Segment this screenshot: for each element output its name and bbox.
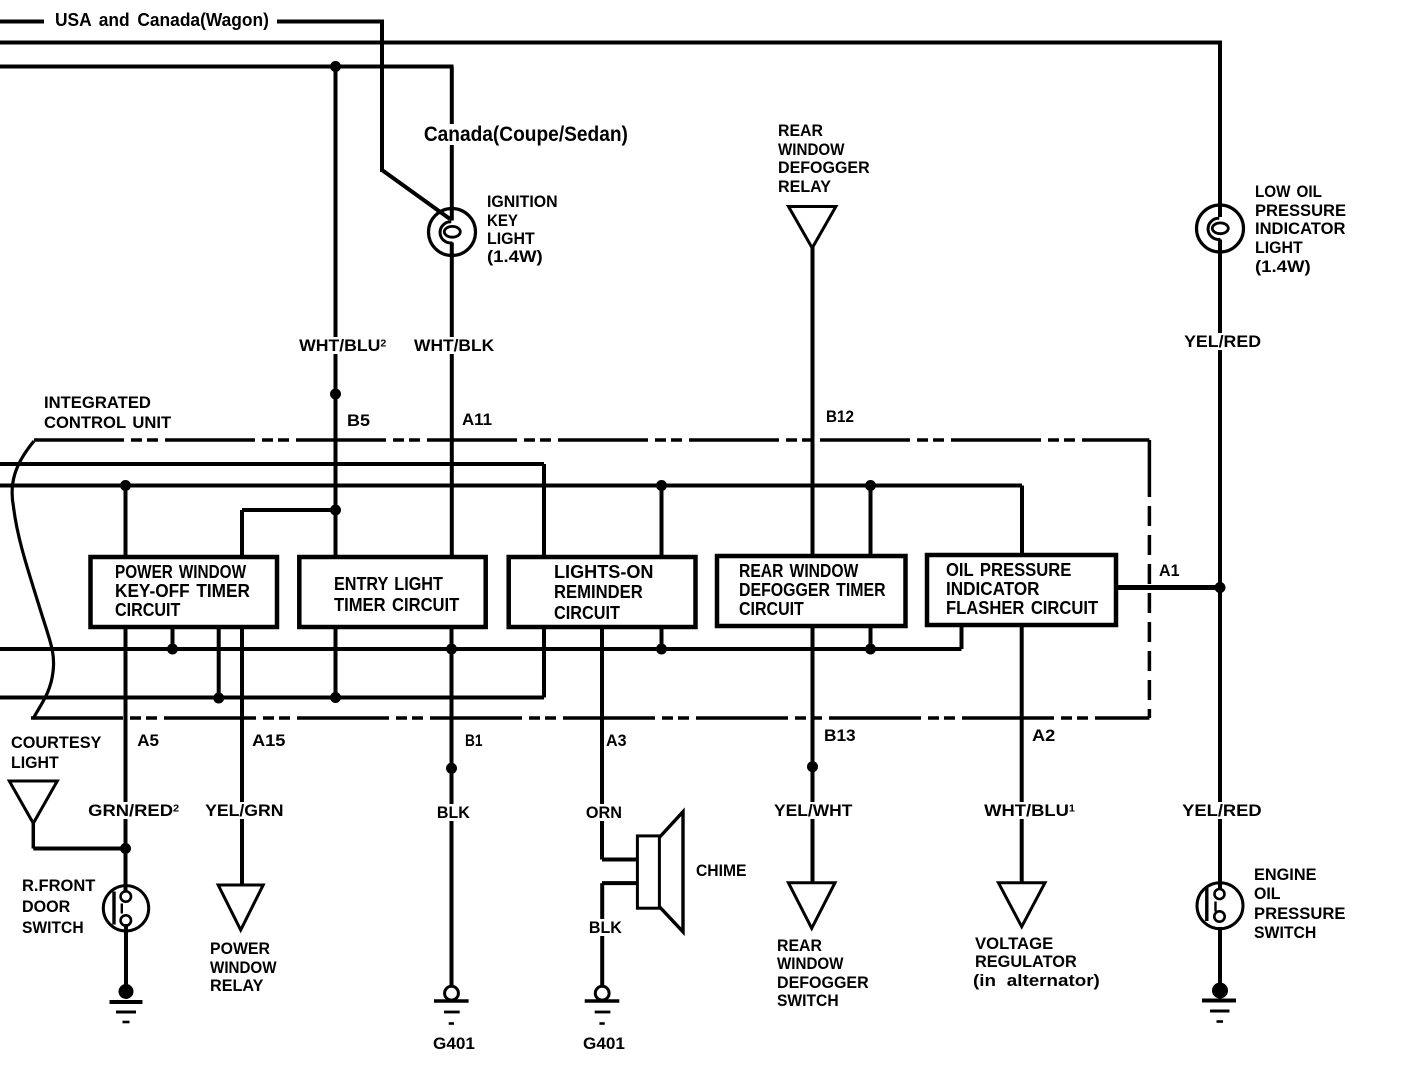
label: G401	[433, 1035, 475, 1052]
label: BLK	[587, 919, 624, 936]
label: SWITCH	[1254, 924, 1316, 941]
ICU dashed top border	[34, 438, 1149, 442]
label: TIMER CIRCUIT	[334, 596, 459, 614]
label: PRESSURE	[1254, 905, 1345, 922]
riser x=961.5 into oil pressure box bottom	[960, 626, 964, 649]
label: DOOR	[22, 898, 70, 915]
stub x=172.5 power window box bottom to bus 649	[171, 626, 175, 649]
wire: branch drop x=242 into power window box top	[240, 510, 244, 557]
lamp: ignition key light bulb	[429, 209, 476, 256]
label: REMINDER	[554, 583, 643, 601]
junction dot + drop x=661.5 into lights-on box top	[656, 480, 667, 491]
wire: A5 column x=125.5 power window box bottom to door switch	[124, 626, 128, 892]
label: (1.4W)	[1255, 258, 1311, 275]
label: YEL/WHT	[772, 802, 854, 819]
speaker: chime body	[637, 836, 659, 908]
label: R.FRONT	[22, 877, 95, 894]
junction dot on WHT/BLU2 at y=510	[330, 505, 341, 516]
label: ENGINE	[1254, 866, 1316, 883]
terminal dot on B13 below ICU border	[807, 761, 818, 772]
label: IGNITION	[487, 193, 558, 210]
label: CHIME	[696, 862, 746, 879]
wire: diagonal from USA/Canada drop into ignition key light	[382, 170, 450, 219]
triangle: voltage regulator	[998, 883, 1045, 927]
label: INTEGRATED	[44, 394, 151, 411]
terminal dot on B1 below ICU border	[446, 763, 457, 774]
chassis ground under engine oil pressure switch	[1212, 983, 1228, 999]
box: OIL PRESSURE INDICATOR FLASHER CIRCUIT	[927, 555, 1116, 625]
label: REAR	[777, 937, 822, 954]
label: FLASHER CIRCUIT	[946, 599, 1098, 617]
wire: horizontal feed y=66.5 to WHT/BLK drop	[0, 65, 454, 69]
wire: chime bottom feed	[602, 881, 639, 885]
label: COURTESY	[11, 734, 101, 751]
wire: USA and Canada(Wagon) feed, right segment to drop	[277, 20, 384, 24]
label: CIRCUIT	[739, 600, 804, 618]
ICU dashed right border	[1148, 440, 1152, 718]
label: LIGHTS-ON	[554, 563, 653, 581]
label: SWITCH	[777, 992, 839, 1009]
label: DEFOGGER	[777, 974, 869, 991]
wire: B12 vertical from defogger relay to rear defogger timer box	[811, 246, 815, 557]
label: KEY	[487, 212, 518, 229]
label: ORN	[584, 804, 624, 821]
lamp triangle: courtesy light	[9, 781, 57, 823]
ICU dashed bottom border	[31, 716, 1149, 720]
label: WINDOW	[778, 141, 844, 158]
drop x=544 into lights-on box top	[542, 464, 546, 557]
box: ENTRY LIGHT TIMER CIRCUIT	[299, 557, 485, 627]
label: OIL	[1254, 885, 1281, 902]
ICU wavy left boundary	[12, 441, 54, 719]
label: B13	[824, 727, 856, 744]
box: REAR WINDOW DEFOGGER TIMER CIRCUIT	[717, 556, 906, 626]
box: POWER WINDOW KEY-OFF TIMER CIRCUIT	[91, 557, 278, 627]
label: A3	[606, 732, 626, 749]
lamp: low oil pressure indicator light bulb	[1197, 205, 1244, 252]
junction dot + drop x=870.5 into rear defogger timer box top	[865, 480, 876, 491]
label: RELAY	[210, 977, 263, 994]
label: YEL/RED	[1180, 802, 1264, 819]
junction dot on WHT/BLU2 at B5 connector	[330, 389, 341, 400]
label: REAR WINDOW	[739, 562, 858, 580]
label: INDICATOR	[1255, 220, 1345, 237]
wire: chime top feed	[602, 858, 639, 862]
junction at (335.5,66.5)	[330, 61, 341, 72]
wire: B1 column x=451.5 entry box bottom to G401 ground	[450, 626, 454, 987]
label: WHT/BLK	[412, 337, 496, 354]
label: RELAY	[778, 178, 831, 195]
label: CIRCUIT	[554, 604, 620, 622]
label: LIGHT	[11, 754, 59, 771]
junction dots on bus 649	[167, 644, 178, 655]
label: B12	[826, 408, 854, 425]
switch: engine oil pressure switch	[1197, 883, 1243, 929]
wire: chime BLK drop to ground	[600, 883, 604, 986]
wire: engine oil pressure switch to chassis ground	[1218, 927, 1222, 986]
label: YEL/GRN	[203, 802, 286, 819]
label: ENTRY LIGHT	[334, 575, 443, 593]
label: A5	[137, 732, 159, 749]
wire: WHT/BLK vertical from ignition key light to entry box	[450, 243, 454, 558]
label: VOLTAGE	[975, 935, 1053, 952]
wire: door switch to chassis ground	[124, 924, 128, 987]
wire: A3 column x=602 lights-on box bottom to chime corner	[600, 626, 604, 860]
wire: courtesy light drop and horizontal to A5	[32, 823, 36, 848]
label: KEY-OFF TIMER	[115, 582, 250, 600]
label: WINDOW	[777, 955, 843, 972]
label: LIGHT	[487, 230, 535, 247]
wire: USA/Canada feed drop at x=382	[380, 20, 384, 173]
relay triangle: power window relay	[218, 885, 263, 930]
label: (in alternator)	[973, 972, 1100, 989]
stub x=335.5 entry box bottom to bus 697.5	[334, 626, 338, 698]
bus y=464 from left edge to lights-on box drop	[0, 462, 544, 466]
label: REAR	[778, 122, 823, 139]
stub x=870.5 rear defogger box bottom to bus 649	[869, 626, 873, 649]
label: WHT/BLU1	[982, 802, 1077, 819]
box: LIGHTS-ON REMINDER CIRCUIT	[509, 557, 696, 627]
speaker: chime horn	[659, 812, 683, 932]
label: POWER WINDOW	[115, 563, 246, 581]
label: A15	[252, 732, 285, 749]
junction dot A1 on YEL/RED	[1215, 582, 1226, 593]
riser x=544 lights-on box bottom to bus 697.5	[542, 626, 546, 698]
label: B1	[465, 732, 482, 749]
label: A2	[1032, 727, 1055, 744]
wire: A15 column x=242 power window box bottom to relay triangle	[240, 626, 244, 885]
label: BLK	[435, 804, 472, 821]
label: CONTROL UNIT	[44, 414, 171, 431]
ground: G401 under chime BLK wire	[595, 986, 609, 1000]
wire: main horizontal bus y=42.5 to low oil light drop	[0, 41, 1222, 45]
label: REGULATOR	[975, 953, 1077, 970]
label: LOW OIL	[1255, 183, 1322, 200]
label: CIRCUIT	[115, 601, 180, 619]
wire: WHT/BLU2 vertical from junction to entry light timer box	[334, 67, 338, 558]
label: OIL PRESSURE	[946, 561, 1071, 579]
switch triangle: rear window defogger switch	[788, 883, 835, 929]
label: YEL/RED	[1182, 333, 1263, 350]
wire: A2 column x=1021.7 oil pressure box bottom to voltage regulator triangle	[1020, 626, 1024, 883]
wire: B13 column x=812.5 rear defogger box bottom to defogger switch triangle	[811, 626, 815, 883]
label: Canada(Coupe/Sedan)	[422, 124, 630, 145]
junction dot + drop x=125.5 into power window box top	[120, 480, 131, 491]
stub x=218.7 power window box bottom to bus 697.5	[217, 626, 221, 698]
label: POWER	[210, 940, 270, 957]
label: USA and Canada(Wagon)	[55, 11, 269, 29]
relay triangle: rear window defogger relay	[789, 207, 836, 249]
label: (1.4W)	[487, 248, 543, 265]
ground: G401 under B1 BLK wire	[445, 986, 459, 1000]
wire: branch y=510 from power-window box to WHT/BLU2	[242, 508, 336, 512]
chassis ground under door switch	[119, 984, 134, 999]
label: WHT/BLU2	[297, 337, 388, 354]
junction dots on bus 697.5	[213, 693, 224, 704]
junction dot courtesy joins A5	[120, 843, 131, 854]
drop x=1022 into oil pressure box top	[1020, 486, 1024, 558]
stub x=661.5 lights-on box bottom to bus 649	[660, 626, 664, 649]
switch: R.front door switch	[103, 886, 148, 931]
label: GRN/RED2	[86, 802, 181, 819]
label: SWITCH	[22, 919, 84, 936]
bus y=485.5 from left edge to oil pressure box drop	[0, 484, 1022, 488]
label: DEFOGGER TIMER	[739, 581, 886, 599]
bus y=649 from left edge to oil pressure box riser	[0, 647, 962, 651]
label: A1	[1159, 562, 1179, 579]
wire: A1 from oil pressure box right edge to YEL/RED	[1114, 585, 1220, 590]
wire: WHT/BLK vertical from y=66.5 to ignition key light	[450, 67, 454, 221]
label: B5	[347, 412, 370, 429]
label: WINDOW	[210, 959, 277, 976]
label: DEFOGGER	[778, 159, 870, 176]
bus y=697.5 from left edge to lights-on box riser	[0, 696, 544, 700]
label: G401	[583, 1035, 625, 1052]
wire: YEL/RED from low oil light down to engine oil pressure switch	[1218, 240, 1222, 890]
wire: USA and Canada(Wagon) feed, left stub	[0, 20, 44, 24]
label: PRESSURE	[1255, 202, 1346, 219]
label: INDICATOR	[946, 580, 1040, 598]
label: LIGHT	[1255, 239, 1303, 256]
label: A11	[462, 411, 492, 428]
wire: YEL/RED drop from bus to low oil light	[1218, 43, 1222, 218]
